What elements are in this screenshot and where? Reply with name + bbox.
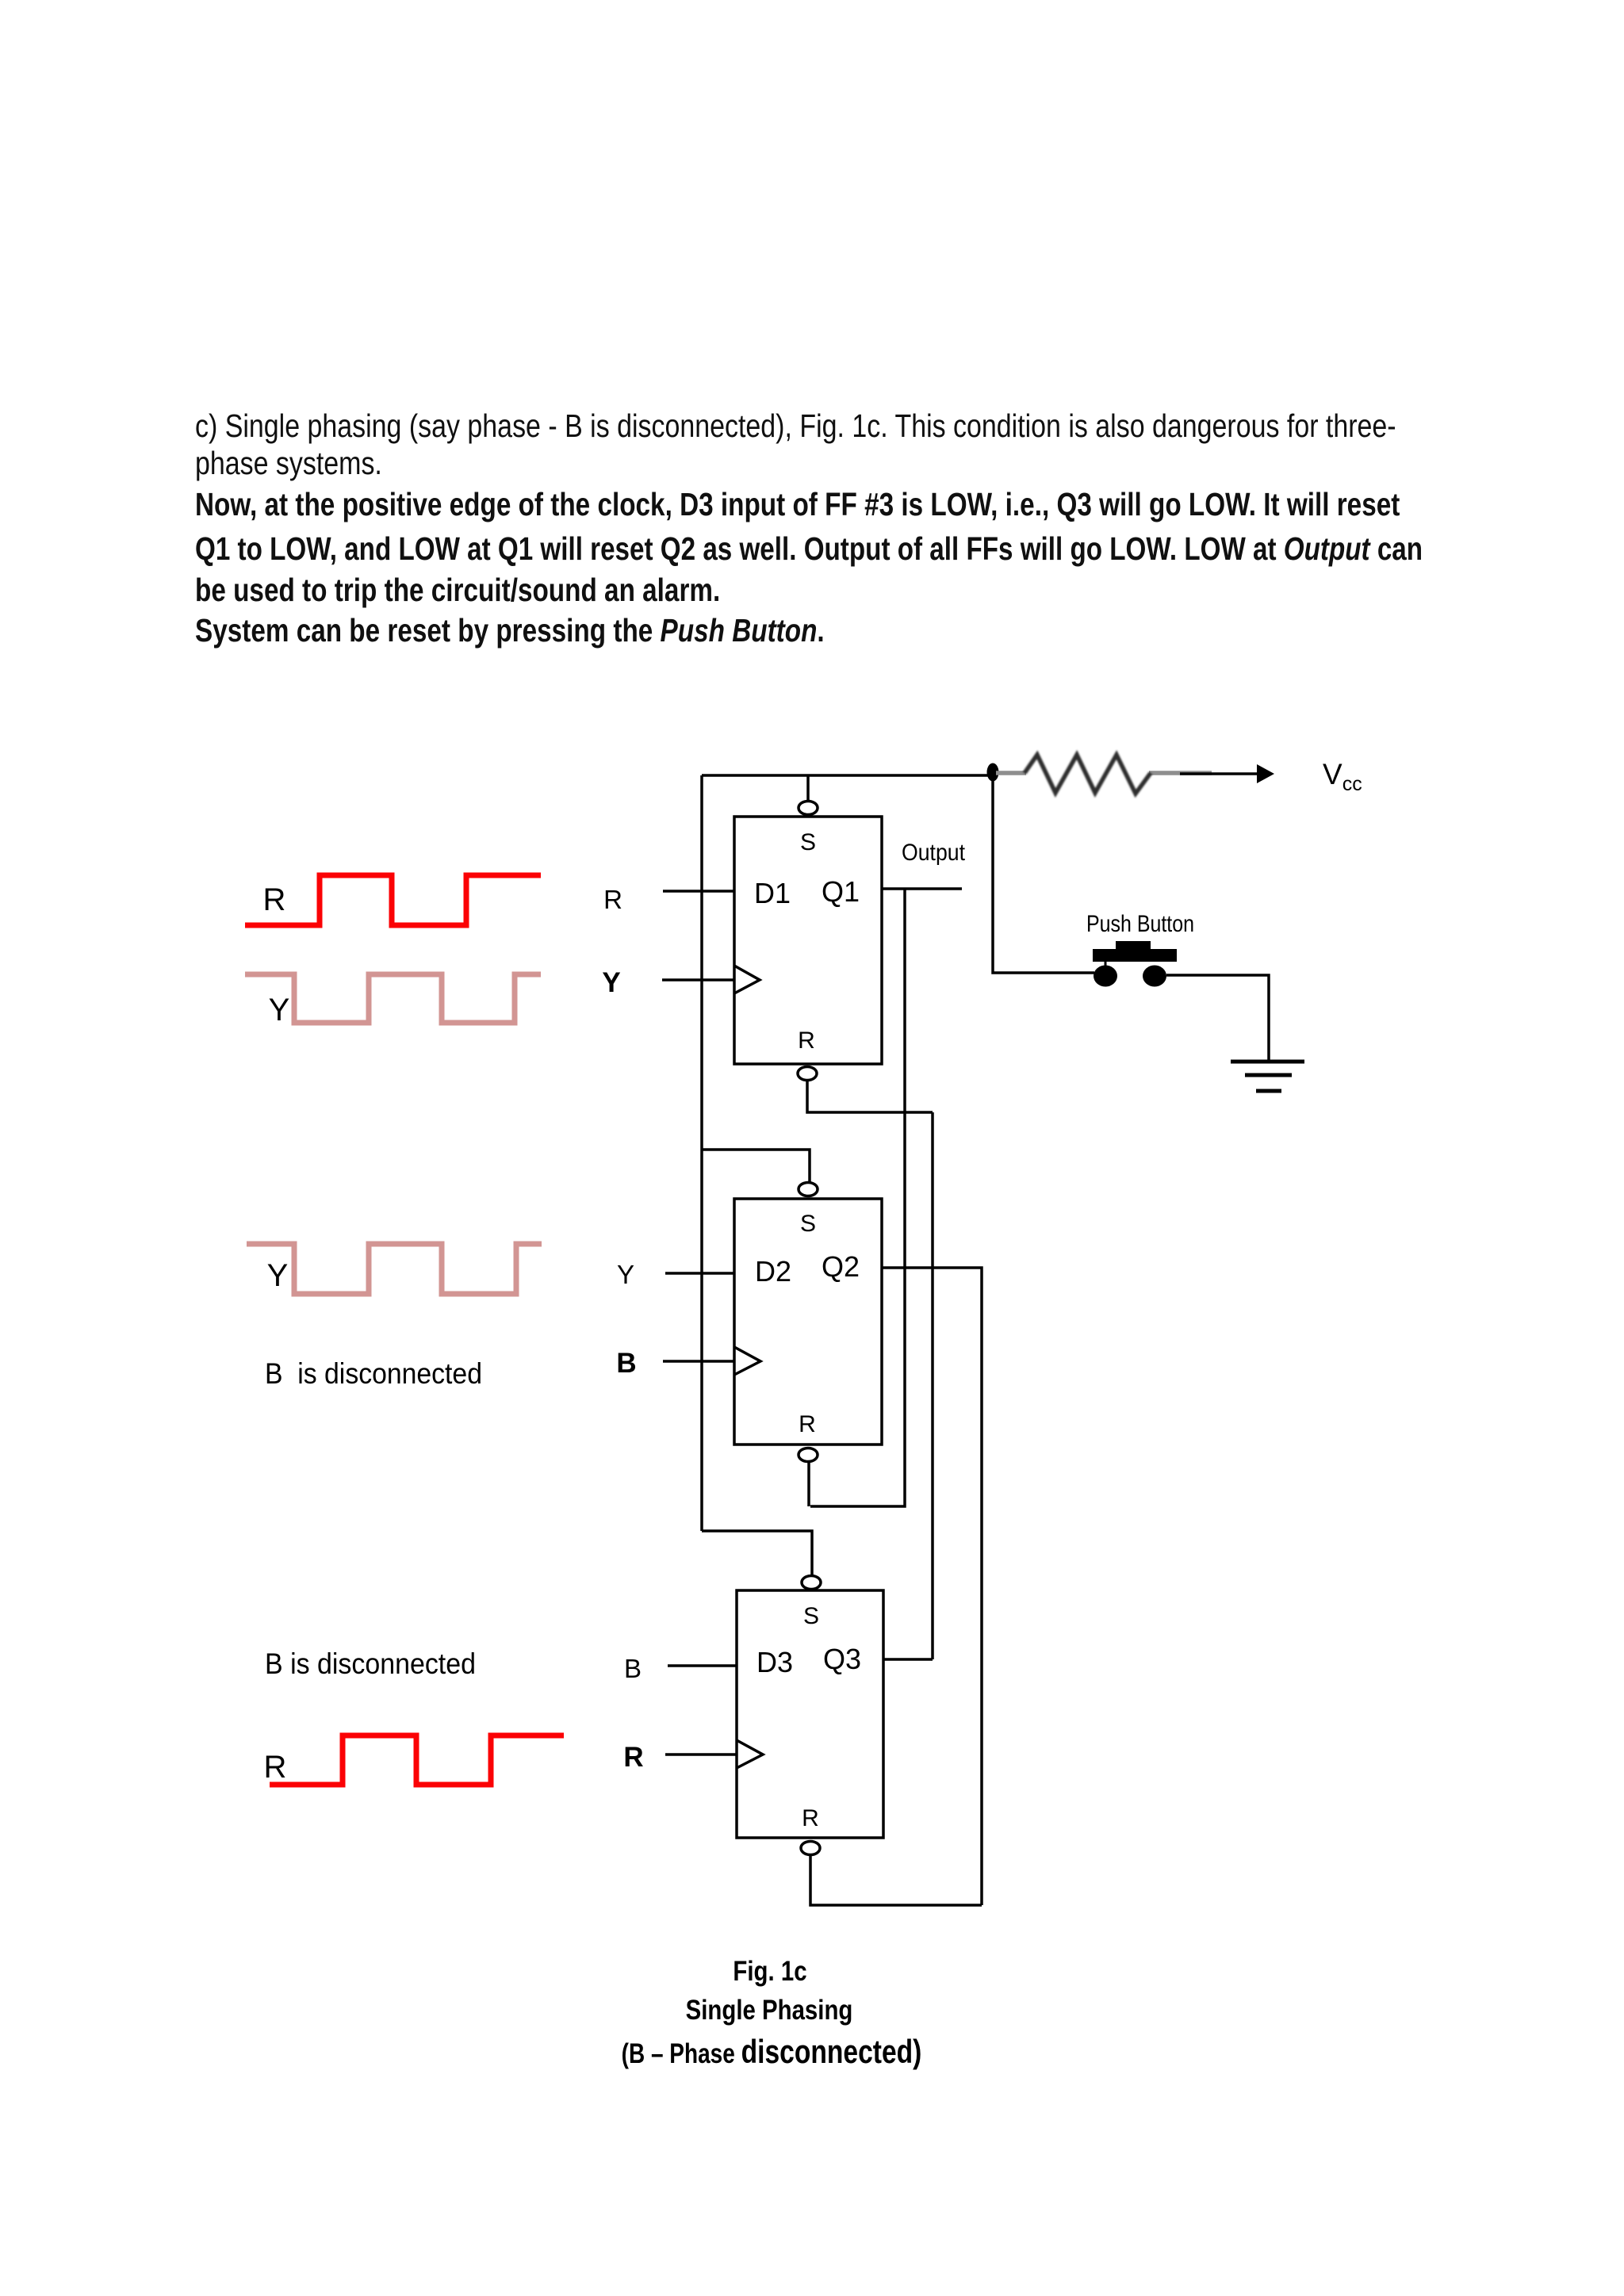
svg-text:R: R [263, 882, 286, 917]
wire: R1 bubble to Q3 rail [807, 1080, 933, 1112]
waveform R (bottom, red) [270, 1735, 564, 1785]
wire: Q1 to R2 vertical [810, 889, 905, 1506]
svg-text:B is disconnected: B is disconnected [265, 1357, 482, 1390]
U3 clock triangle [737, 1740, 763, 1768]
U1 pin R bubble [798, 1067, 817, 1081]
svg-text:R: R [799, 1411, 816, 1437]
svg-text:Y: Y [617, 1260, 634, 1289]
wire: node to push button [993, 775, 1094, 973]
wire: Q1 output [882, 887, 962, 890]
svg-text:Q2: Q2 [822, 1250, 860, 1283]
wire: Q3 output [883, 1658, 933, 1661]
svg-text:Y: Y [602, 967, 620, 998]
svg-text:R: R [264, 1750, 287, 1785]
wire: clock 3 input [665, 1753, 737, 1756]
svg-text:Output: Output [902, 840, 966, 866]
wire: R2 bubble stub [807, 1461, 810, 1506]
waveform R (top, red) [245, 875, 541, 925]
svg-text:D3: D3 [756, 1646, 793, 1678]
wire: arrow to Vcc [1180, 772, 1259, 775]
waveform Y (middle, pink) [247, 1244, 542, 1294]
wire: D3 input [668, 1664, 737, 1667]
flip-flop U1 (D1/Q1) box [734, 817, 882, 1064]
wire: clock 2 input [663, 1360, 734, 1363]
U2 clock triangle [734, 1347, 760, 1375]
resistor R1 pull-up (zigzag body) [1025, 755, 1151, 794]
svg-text:R: R [603, 885, 622, 914]
wire: D2 input [665, 1272, 734, 1275]
svg-text:Q1: Q1 [822, 875, 860, 908]
wire: S2 connection to S-bus [702, 1150, 810, 1183]
svg-text:D2: D2 [755, 1255, 791, 1288]
svg-text:Push Button: Push Button [1086, 911, 1194, 937]
svg-text:S: S [800, 829, 816, 855]
wire: Q3 to R1 vertical rail [931, 1112, 934, 1659]
U1 pin S bubble [806, 775, 810, 802]
svg-text:Y: Y [267, 1258, 289, 1293]
wire: Vcc top rail (S-bus top) [702, 774, 993, 777]
svg-text:R: R [623, 1742, 643, 1773]
svg-text:R: R [802, 1805, 819, 1831]
resistor R1 pull-up (gray leads) [996, 771, 1026, 775]
svg-text:B is disconnected: B is disconnected [265, 1647, 476, 1680]
node A: pull-up junction dot [987, 763, 999, 782]
svg-text:S: S [800, 1211, 816, 1237]
wire: clock 1 input [662, 978, 734, 982]
wire: Q2 output to R3 rail [882, 1268, 982, 1905]
U3 pin S bubble [802, 1576, 821, 1590]
U2 pin R bubble [799, 1448, 818, 1462]
wire: left S-bus vertical rail [700, 775, 703, 1531]
svg-text:Vcc: Vcc [1323, 758, 1362, 795]
U1 clock triangle [734, 966, 760, 993]
U2 pin S bubble [799, 1183, 818, 1196]
ground [1231, 1062, 1304, 1091]
waveform Y (top, pink) [245, 974, 541, 1023]
svg-text:B: B [616, 1348, 636, 1379]
wire: push button to ground [1166, 975, 1269, 1062]
U3 pin R bubble [801, 1842, 820, 1855]
wire: R3 bubble to Q2 rail [810, 1854, 982, 1905]
wire: D1 input [663, 890, 734, 893]
svg-text:Q3: Q3 [823, 1643, 861, 1675]
push button SW1 [1093, 941, 1177, 987]
flip-flop U2 (D2/Q2) box [734, 1199, 882, 1445]
svg-text:B: B [624, 1654, 642, 1683]
svg-text:R: R [798, 1027, 815, 1054]
svg-text:Y: Y [269, 993, 290, 1027]
flip-flop U3 (D3/Q3) box [737, 1590, 883, 1838]
svg-text:D1: D1 [754, 877, 791, 909]
svg-text:S: S [803, 1603, 819, 1629]
wire: S3 connection to S-bus [702, 1531, 812, 1576]
